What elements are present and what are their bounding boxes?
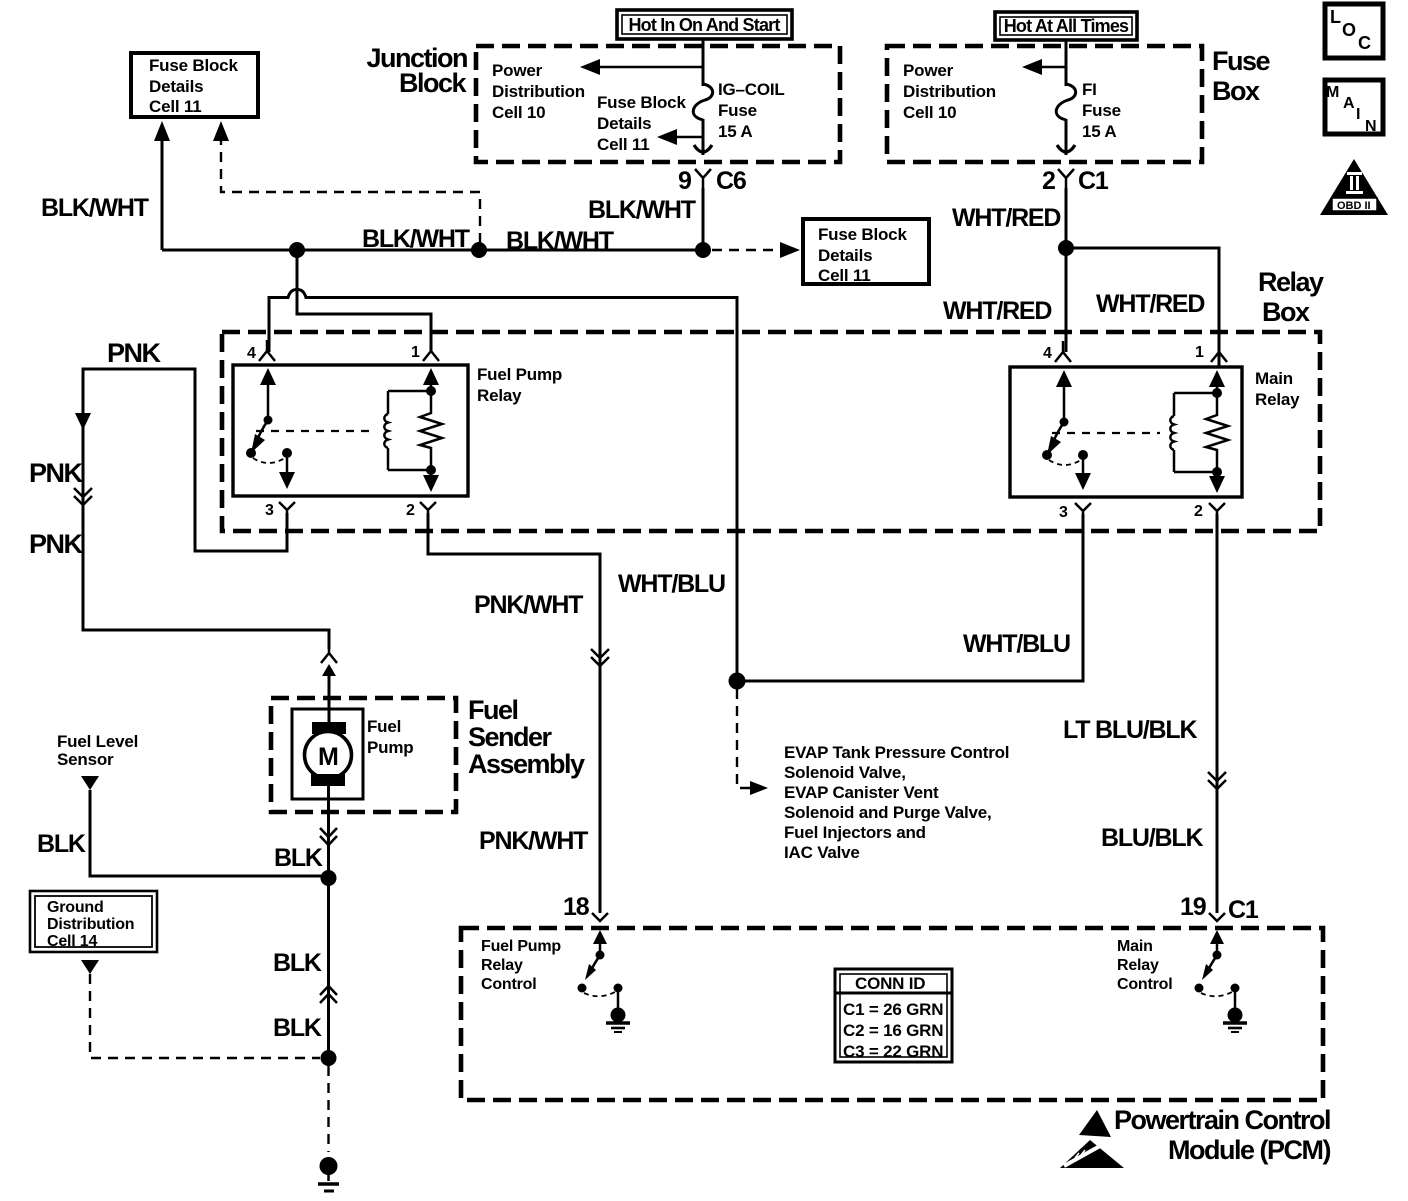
svg-text:C3 = 22 GRN: C3 = 22 GRN	[843, 1042, 943, 1061]
svg-text:3: 3	[1059, 504, 1068, 521]
wire: fuse output down-arrow to connector 2 C1	[1057, 119, 1075, 155]
junction node (BLK / ground tap)	[321, 1050, 337, 1066]
label box: Hot In On And Start	[617, 10, 792, 39]
wire: arrow left inside fuse box	[1022, 59, 1066, 75]
switch: fuel pump relay control driver	[578, 930, 623, 996]
svg-text:2: 2	[1042, 167, 1055, 195]
connector 9 C6	[678, 167, 746, 195]
svg-text:18: 18	[563, 893, 590, 921]
svg-text:Fuel Level: Fuel Level	[57, 732, 138, 751]
svg-text:O: O	[1342, 20, 1356, 40]
svg-text:3: 3	[265, 502, 274, 519]
svg-text:Assembly: Assembly	[468, 749, 585, 779]
junction node (bus / C6 wire)	[695, 242, 711, 258]
svg-text:Cell 14: Cell 14	[47, 933, 97, 950]
fuel pump motor circle with M	[305, 732, 352, 779]
pin 18 label and connector	[563, 893, 608, 921]
svg-text:4: 4	[1043, 345, 1052, 362]
svg-text:Control: Control	[481, 976, 536, 993]
svg-text:A: A	[1343, 95, 1355, 112]
svg-text:WHT/RED: WHT/RED	[943, 297, 1051, 325]
svg-text:C: C	[1358, 33, 1371, 53]
svg-text:M: M	[318, 743, 338, 771]
svg-text:PNK: PNK	[107, 338, 162, 368]
dashed box: junction block power distribution	[476, 46, 840, 162]
svg-text:Fuse: Fuse	[1212, 46, 1271, 76]
wire: BLK down to lower junction	[327, 878, 330, 1058]
svg-text:Hot At All Times: Hot At All Times	[1004, 16, 1129, 36]
wire: WHT/BLU net from relay pin 4 across to right drop, hopping over BLK/WHT drop	[269, 290, 737, 682]
fuel pump feed stub	[328, 709, 331, 724]
label Fuel Level Sensor	[57, 732, 138, 769]
box: Fuse Block Details Cell 11 (middle)	[803, 219, 929, 285]
svg-text:Relay: Relay	[1255, 390, 1300, 409]
label Fuse Box	[1212, 46, 1271, 106]
wire: arrow left to Cell 11	[657, 129, 703, 145]
svg-text:Cell 11: Cell 11	[818, 266, 870, 285]
pin 1 label and connector (fuel pump relay)	[411, 340, 439, 361]
label Fuel Sender Assembly	[468, 695, 585, 779]
svg-text:BLK/WHT: BLK/WHT	[588, 196, 696, 224]
wire: dashed from ground distribution to BLK junction	[90, 974, 320, 1058]
svg-text:FI: FI	[1082, 80, 1097, 99]
svg-text:Details: Details	[149, 77, 203, 96]
svg-text:Sender: Sender	[468, 722, 553, 752]
box: Ground Distribution Cell 14	[30, 891, 157, 952]
svg-text:Power: Power	[492, 61, 543, 80]
ground inside PCM (right)	[1223, 988, 1247, 1032]
label Relay Box	[1258, 267, 1324, 327]
svg-text:EVAP Canister Vent: EVAP Canister Vent	[784, 783, 939, 802]
wire: WHT/RED down to main relay pin 4	[1065, 248, 1068, 352]
svg-text:1: 1	[411, 344, 420, 361]
label Powertrain Control Module (PCM)	[1114, 1105, 1331, 1165]
svg-text:Control: Control	[1117, 976, 1172, 993]
ground inside PCM (left)	[606, 988, 630, 1032]
fuel level sensor arrow	[81, 776, 99, 790]
svg-text:Solenoid and Purge Valve,: Solenoid and Purge Valve,	[784, 803, 992, 822]
svg-text:PNK/WHT: PNK/WHT	[474, 591, 583, 619]
junction node (bus / dashed tap)	[471, 242, 487, 258]
switch arm (fuel pump relay): pin4 arrow and lever	[246, 368, 276, 458]
svg-text:Power: Power	[903, 61, 954, 80]
svg-text:BLK/WHT: BLK/WHT	[41, 194, 149, 222]
fuel pump brush (bottom)	[311, 774, 345, 786]
dashed arc between contacts (main relay)	[1049, 460, 1081, 465]
svg-text:Main: Main	[1117, 938, 1153, 955]
svg-text:Cell 10: Cell 10	[903, 103, 956, 122]
wire: BLK below fuel pump	[327, 786, 330, 878]
pin 2 label and connector (main relay)	[1194, 503, 1225, 520]
svg-text:Fuse: Fuse	[1082, 101, 1121, 120]
wire: dashed arrow right to Fuse Block Details box	[712, 242, 800, 258]
junction node (bus / relay tap)	[289, 242, 305, 258]
fuse FI 15A	[1056, 84, 1075, 120]
svg-text:PNK: PNK	[29, 529, 84, 559]
dashed box: fuel sender assembly	[271, 698, 456, 812]
dashed box: relay box	[222, 332, 1320, 531]
svg-text:4: 4	[247, 345, 256, 362]
chevrons on PNK/WHT wire	[591, 649, 609, 666]
svg-text:19: 19	[1180, 893, 1206, 921]
connector 2 C1	[1042, 167, 1109, 195]
svg-text:PNK/WHT: PNK/WHT	[479, 827, 588, 855]
svg-text:Sensor: Sensor	[57, 750, 114, 769]
svg-text:Ground: Ground	[47, 899, 104, 916]
svg-text:C6: C6	[716, 167, 746, 195]
pin 3 label and connector (fuel pump relay)	[265, 502, 295, 519]
svg-text:Relay: Relay	[1258, 267, 1324, 297]
svg-text:Box: Box	[1262, 297, 1310, 327]
fuse IG-COIL 15A	[693, 84, 712, 120]
chevrons (upward) on lower BLK wire	[320, 986, 337, 1003]
svg-text:Details: Details	[818, 246, 872, 265]
relay K1: fuel pump relay body	[233, 365, 468, 496]
svg-text:Cell 10: Cell 10	[492, 103, 545, 122]
fixed contact (fuel pump relay) with down arrow to pin 3	[279, 448, 295, 489]
label Fuel Pump	[367, 717, 413, 757]
pin 19 C1 label and connector	[1180, 893, 1259, 924]
svg-text:Cell 11: Cell 11	[149, 97, 201, 116]
label box: Hot At All Times	[995, 12, 1137, 40]
svg-text:C1: C1	[1078, 167, 1109, 195]
svg-text:BLK: BLK	[274, 844, 323, 872]
label Fuel Pump Relay	[477, 365, 562, 405]
fuel pump M1: outer box	[292, 709, 363, 799]
box: Fuse Block Details Cell 11 (top left)	[131, 53, 258, 117]
svg-text:WHT/RED: WHT/RED	[1096, 290, 1204, 318]
wire: from Hot In On And Start down to fuse	[702, 39, 705, 86]
label Fuel Pump Relay Control	[481, 938, 561, 993]
svg-text:15 A: 15 A	[1082, 122, 1116, 141]
svg-text:C1 = 26 GRN: C1 = 26 GRN	[843, 1000, 943, 1019]
wire: dashed EVAP branch with arrow	[737, 689, 768, 795]
chevrons on LT BLU/BLK wire	[1208, 772, 1226, 789]
label Main Relay Control	[1117, 938, 1172, 993]
svg-text:Hot In On And Start: Hot In On And Start	[628, 15, 780, 35]
wire: BLK/WHT up-arrow into Fuse Block Details box	[154, 121, 170, 250]
wire: BLK/WHT from connector C6 down to bus	[702, 188, 705, 250]
svg-text:Fuse Block: Fuse Block	[597, 93, 686, 112]
dashed arc between contacts (fuel pump relay)	[253, 458, 285, 463]
svg-text:Relay: Relay	[1117, 957, 1159, 974]
relay coil (main relay)	[1170, 393, 1217, 472]
icon: OBD II triangle	[1320, 159, 1388, 215]
coil junction dots (fuel pump relay)	[426, 386, 436, 396]
svg-text:IG–COIL: IG–COIL	[718, 80, 785, 99]
label Junction Block	[367, 43, 468, 98]
wire: PNK from relay pin 3 around to left drop	[83, 369, 329, 649]
relay K2: main relay body	[1010, 367, 1242, 497]
pin 2 label and connector (fuel pump relay)	[406, 502, 436, 519]
svg-text:9: 9	[678, 167, 691, 195]
dashed box: PCM	[461, 928, 1323, 1100]
svg-text:Fuel Pump: Fuel Pump	[481, 938, 561, 955]
svg-text:C1: C1	[1228, 896, 1259, 924]
inline connector on pump feed (socket and arrow)	[321, 649, 337, 710]
svg-text:WHT/RED: WHT/RED	[952, 204, 1060, 232]
label EVAP loads	[784, 743, 1009, 862]
icon: ESD warning triangles	[1060, 1110, 1124, 1168]
svg-text:OBD II: OBD II	[1337, 200, 1371, 212]
svg-text:Pump: Pump	[367, 738, 413, 757]
svg-text:Fuel Pump: Fuel Pump	[477, 365, 562, 384]
svg-text:Fuse Block: Fuse Block	[818, 225, 907, 244]
chevrons on BLK wire below pump	[320, 828, 337, 845]
svg-text:2: 2	[1194, 503, 1203, 520]
relay resistor (main relay)	[1206, 377, 1228, 488]
label FI Fuse 15 A	[1082, 80, 1121, 141]
svg-text:BLK: BLK	[37, 830, 86, 858]
svg-text:Box: Box	[1212, 76, 1260, 106]
svg-text:Module (PCM): Module (PCM)	[1168, 1135, 1330, 1165]
svg-text:Relay: Relay	[477, 386, 522, 405]
svg-text:CONN ID: CONN ID	[855, 974, 925, 993]
label Power Distribution Cell 10 (left)	[492, 61, 585, 122]
label Fuse Block Details Cell 11 (inside junction block)	[597, 93, 686, 154]
svg-text:1: 1	[1195, 344, 1204, 361]
label IG-COIL Fuse 15 A	[718, 80, 785, 141]
wire: from Hot At All Times down to fuse	[1065, 40, 1068, 86]
svg-text:Powertrain Control: Powertrain Control	[1114, 1105, 1330, 1135]
svg-text:Distribution: Distribution	[47, 916, 134, 933]
junction node (WHT/BLU / EVAP tap)	[729, 673, 746, 690]
svg-text:C2 = 16 GRN: C2 = 16 GRN	[843, 1021, 943, 1040]
dashed box: fuse box	[887, 46, 1202, 162]
svg-text:LT BLU/BLK: LT BLU/BLK	[1063, 716, 1197, 744]
ground distribution arrow	[81, 960, 99, 974]
svg-text:BLK: BLK	[273, 949, 322, 977]
switch arm (main relay): pin4 arrow and lever	[1042, 370, 1072, 460]
svg-text:Cell 11: Cell 11	[597, 135, 649, 154]
svg-text:Details: Details	[597, 114, 651, 133]
icon: MAIN box	[1325, 80, 1383, 135]
wire: WHT/RED from connector C1 down to junction	[1065, 188, 1068, 248]
label Main Relay	[1255, 369, 1300, 409]
fuel pump brush (top)	[312, 722, 346, 734]
coil junction dots (main relay)	[1212, 388, 1222, 398]
wire: arrow left to Power Distribution	[580, 59, 703, 75]
svg-text:Solenoid Valve,: Solenoid Valve,	[784, 763, 906, 782]
wire: dashed tap to Fuse Block Details box	[213, 121, 480, 248]
table: CONN ID	[835, 969, 952, 1062]
wire: BLK/WHT drop with hop to fuel pump relay pin 1	[297, 250, 431, 352]
svg-text:15 A: 15 A	[718, 122, 752, 141]
dashed actuation link (fuel pump relay)	[256, 430, 374, 432]
svg-text:WHT/BLU: WHT/BLU	[963, 630, 1070, 658]
svg-text:WHT/BLU: WHT/BLU	[618, 570, 725, 598]
svg-text:Fuel Injectors and: Fuel Injectors and	[784, 823, 926, 842]
wire: BLK/WHT main bus	[162, 249, 703, 252]
svg-text:Main: Main	[1255, 369, 1293, 388]
pin 4 label and connector (main relay)	[1043, 341, 1071, 362]
dashed actuation link (main relay)	[1052, 432, 1160, 434]
inline connector chevrons on PNK wire	[74, 488, 92, 505]
relay resistor (fuel pump relay)	[420, 375, 442, 487]
svg-text:Distribution: Distribution	[903, 82, 996, 101]
svg-text:Relay: Relay	[481, 957, 523, 974]
wire: dashed down to ground	[327, 1066, 329, 1152]
svg-text:N: N	[1365, 118, 1376, 135]
svg-text:IAC Valve: IAC Valve	[784, 843, 860, 862]
svg-text:Block: Block	[399, 68, 468, 98]
svg-text:2: 2	[406, 502, 415, 519]
wire: WHT/RED right branch to main relay pin 1	[1066, 248, 1219, 367]
wire: fuse output down-arrow to connector 9 C6	[694, 119, 712, 155]
pin1 up arrow / pin2 down arrow (main relay)	[1209, 370, 1225, 493]
arrow on PNK drop	[75, 413, 91, 430]
label Power Distribution Cell 10 (fuse box)	[903, 61, 996, 122]
wire: PNK/WHT from fuel pump relay pin 2 down to PCM pin 18	[428, 513, 600, 913]
relay coil (fuel pump relay)	[384, 391, 431, 470]
wire: BLK from fuel level sensor	[90, 790, 329, 876]
svg-text:PNK: PNK	[29, 458, 84, 488]
svg-text:Fuel: Fuel	[468, 695, 518, 725]
wire: WHT/BLU right to main relay pin 3	[737, 514, 1083, 681]
svg-text:Fuse Block: Fuse Block	[149, 56, 238, 75]
svg-text:Fuel: Fuel	[367, 717, 401, 736]
svg-text:M: M	[1326, 84, 1339, 101]
pin 4 label and connector (fuel pump relay)	[247, 340, 275, 362]
svg-text:BLU/BLK: BLU/BLK	[1101, 824, 1203, 852]
svg-text:EVAP Tank Pressure Control: EVAP Tank Pressure Control	[784, 743, 1009, 762]
junction node (BLK merge)	[321, 870, 337, 886]
pin 1 label and connector (main relay)	[1195, 341, 1227, 362]
wire: LT BLU/BLK from main relay pin 2 to PCM pin 19	[1216, 514, 1219, 913]
junction node (WHT/RED split)	[1058, 240, 1074, 256]
svg-text:Fuse: Fuse	[718, 101, 757, 120]
switch: main relay control driver	[1195, 930, 1240, 996]
icon: LOC box	[1325, 4, 1383, 58]
ground G1	[318, 1157, 339, 1191]
svg-text:BLK: BLK	[273, 1014, 322, 1042]
svg-text:Distribution: Distribution	[492, 82, 585, 101]
fixed contact (main relay) with down arrow to pin 3	[1075, 450, 1091, 490]
svg-text:I: I	[1356, 106, 1360, 123]
pin 3 label and connector (main relay)	[1059, 503, 1091, 521]
pin1 up arrow / pin2 down arrow (fuel pump relay)	[423, 368, 439, 492]
svg-text:L: L	[1330, 7, 1341, 27]
